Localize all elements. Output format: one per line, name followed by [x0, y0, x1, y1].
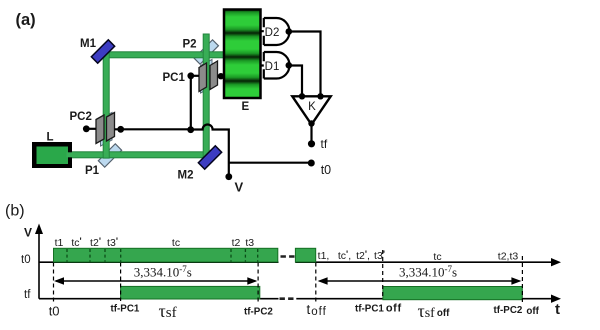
svg-text:P1: P1	[85, 165, 100, 177]
svg-text:t2',: t2',	[356, 249, 370, 262]
svg-text:t2: t2	[232, 237, 241, 249]
svg-text:K: K	[308, 101, 316, 113]
svg-text:M2: M2	[178, 170, 194, 182]
svg-text:tc': tc'	[71, 236, 81, 249]
svg-text:tc: tc	[433, 251, 441, 263]
svg-text:τsf: τsf	[159, 301, 177, 321]
svg-text:3,334.10-7s: 3,334.10-7s	[134, 264, 192, 280]
svg-text:(b): (b)	[5, 203, 25, 220]
svg-text:D2: D2	[265, 27, 280, 39]
svg-text:tf: tf	[321, 137, 328, 151]
svg-text:E: E	[242, 101, 250, 113]
svg-text:tf-PC1off: tf-PC1off	[355, 303, 402, 315]
svg-text:t1: t1	[55, 237, 64, 249]
svg-text:t3: t3	[245, 237, 254, 249]
svg-text:t3': t3'	[374, 249, 385, 262]
svg-text:V: V	[24, 226, 32, 240]
svg-text:toff: toff	[307, 302, 327, 318]
svg-text:t: t	[555, 301, 560, 318]
svg-text:M1: M1	[80, 38, 97, 50]
svg-text:tc: tc	[172, 237, 180, 249]
svg-text:t0: t0	[321, 163, 331, 177]
svg-text:V: V	[235, 180, 244, 195]
svg-text:P2: P2	[183, 39, 197, 51]
svg-text:tc',: tc',	[338, 249, 351, 262]
svg-text:3,334.10-7s: 3,334.10-7s	[399, 264, 457, 280]
svg-text:tf-PC1: tf-PC1	[111, 304, 140, 315]
svg-text:D1: D1	[265, 61, 280, 73]
svg-text:tf-PC2off: tf-PC2off	[494, 305, 540, 317]
svg-text:(a): (a)	[16, 11, 36, 29]
svg-text:tf: tf	[24, 289, 31, 301]
svg-text:t2,t3: t2,t3	[498, 251, 519, 263]
svg-text:PC2: PC2	[70, 111, 92, 123]
svg-text:t0: t0	[49, 304, 60, 319]
svg-text:t0: t0	[21, 254, 31, 266]
svg-text:t2': t2'	[90, 236, 101, 249]
svg-text:tf-PC2: tf-PC2	[244, 306, 273, 317]
svg-text:PC1: PC1	[163, 72, 186, 84]
svg-text:t1,: t1,	[318, 250, 330, 262]
svg-text:τsfoff: τsfoff	[418, 301, 451, 321]
svg-text:L: L	[47, 132, 54, 144]
svg-text:t3': t3'	[107, 236, 118, 249]
